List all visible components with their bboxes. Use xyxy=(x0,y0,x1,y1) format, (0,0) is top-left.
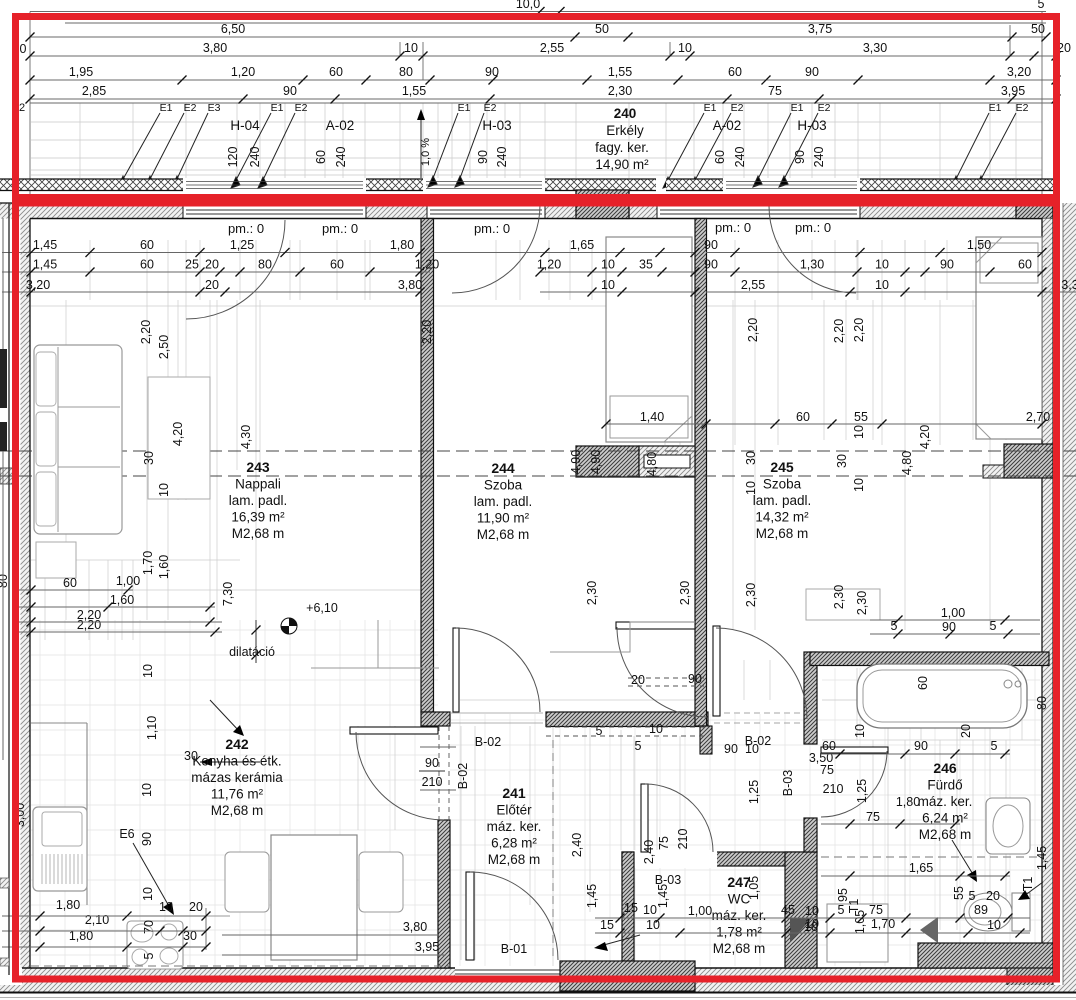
shaft block between rooms xyxy=(576,446,639,477)
svg-text:1,70: 1,70 xyxy=(141,551,155,575)
svg-text:E6: E6 xyxy=(119,827,134,841)
kitchen door opening dashed jambs xyxy=(438,726,440,820)
svg-text:3,80: 3,80 xyxy=(398,278,422,292)
duct wall piece with slot xyxy=(639,446,695,477)
svg-text:lam. padl.: lam. padl. xyxy=(474,494,533,509)
svg-text:241: 241 xyxy=(502,785,526,801)
svg-text:210: 210 xyxy=(676,829,690,850)
kitchen counter left xyxy=(86,723,88,905)
hall dashed vertical xyxy=(552,740,554,960)
sofa living room xyxy=(34,345,122,534)
svg-text:89: 89 xyxy=(974,903,988,917)
right wall pier light xyxy=(983,465,1004,478)
svg-text:E2: E2 xyxy=(731,102,744,114)
svg-text:1,50: 1,50 xyxy=(967,238,991,252)
section line lower xyxy=(0,475,1076,477)
svg-text:50: 50 xyxy=(1031,22,1045,36)
T1 arrow kitchen xyxy=(210,700,240,732)
svg-text:3,95: 3,95 xyxy=(1001,84,1025,98)
fraction line 90 210 kitchen door xyxy=(419,770,445,772)
svg-text:M2,68 m: M2,68 m xyxy=(211,803,264,818)
bath left wall upper xyxy=(804,652,817,744)
washbasin bath xyxy=(986,798,1030,854)
svg-text:M2,68 m: M2,68 m xyxy=(488,852,541,867)
svg-text:1,80: 1,80 xyxy=(390,238,414,252)
svg-text:55: 55 xyxy=(952,886,966,900)
kitchen dimension lines xyxy=(12,589,133,591)
svg-text:H-03: H-03 xyxy=(482,118,511,133)
svg-text:A-02: A-02 xyxy=(713,118,742,133)
svg-text:245: 245 xyxy=(770,459,794,475)
svg-text:B-01: B-01 xyxy=(501,942,527,956)
svg-text:1,20: 1,20 xyxy=(231,65,255,79)
svg-text:1,20: 1,20 xyxy=(537,258,561,272)
svg-text:5: 5 xyxy=(969,889,976,903)
svg-text:30: 30 xyxy=(835,454,849,468)
svg-text:10: 10 xyxy=(649,722,663,736)
svg-text:80: 80 xyxy=(258,258,272,272)
svg-text:M2,68 m: M2,68 m xyxy=(477,527,530,542)
wc bath thick wall xyxy=(785,852,817,968)
hall dashed ceiling line xyxy=(546,726,708,728)
wall hall head piece xyxy=(546,712,708,727)
left exterior wall xyxy=(21,203,31,968)
svg-text:1,45: 1,45 xyxy=(1035,846,1049,870)
window leader arrows E1 E2 E3 xyxy=(118,113,1016,188)
door 245 threshold dashed xyxy=(714,712,804,714)
svg-text:2,30: 2,30 xyxy=(832,585,846,609)
svg-text:6,50: 6,50 xyxy=(221,22,245,36)
svg-text:75: 75 xyxy=(866,810,880,824)
svg-text:60: 60 xyxy=(329,65,343,79)
top dimension lines xyxy=(30,12,1056,204)
svg-text:1,60: 1,60 xyxy=(157,555,171,579)
svg-text:90: 90 xyxy=(704,258,718,272)
bath left wall lower piece xyxy=(804,818,817,852)
bottom right ledge wall xyxy=(918,943,1053,968)
svg-text:15: 15 xyxy=(624,901,638,915)
E6 arrow xyxy=(133,843,170,908)
svg-text:dilatáció: dilatáció xyxy=(229,645,275,659)
svg-text:55: 55 xyxy=(854,410,868,424)
svg-text:80: 80 xyxy=(1035,696,1049,710)
svg-text:10: 10 xyxy=(875,258,889,272)
svg-text:5: 5 xyxy=(991,739,998,753)
svg-text:10,0: 10,0 xyxy=(516,0,540,11)
dilatacio joint line xyxy=(255,620,257,663)
svg-text:246: 246 xyxy=(933,760,957,776)
left wall outer edge xyxy=(8,203,10,975)
svg-text:6,28 m²: 6,28 m² xyxy=(491,836,537,851)
svg-text:1,80: 1,80 xyxy=(896,795,920,809)
svg-text:10: 10 xyxy=(853,724,867,738)
svg-text:20: 20 xyxy=(205,278,219,292)
svg-text:90: 90 xyxy=(805,65,819,79)
svg-text:3,20: 3,20 xyxy=(1007,65,1031,79)
svg-text:Előtér: Előtér xyxy=(496,803,532,818)
dark wedge symbol xyxy=(790,918,812,942)
svg-text:5: 5 xyxy=(838,903,845,917)
svg-text:1,10: 1,10 xyxy=(145,716,159,740)
svg-text:4,90: 4,90 xyxy=(589,450,603,474)
svg-text:B-02: B-02 xyxy=(456,763,470,789)
svg-text:70: 70 xyxy=(142,920,156,934)
svg-text:15: 15 xyxy=(600,918,614,932)
projection lines rooms xyxy=(31,240,1042,968)
balcony door arc room 244 xyxy=(452,205,540,293)
svg-text:60: 60 xyxy=(728,65,742,79)
closet outline room 244 xyxy=(550,622,695,652)
svg-text:máz. ker.: máz. ker. xyxy=(918,794,973,809)
hall dimension lines xyxy=(222,934,438,936)
svg-text:75: 75 xyxy=(820,763,834,777)
svg-text:5: 5 xyxy=(635,739,642,753)
svg-text:M2,68 m: M2,68 m xyxy=(919,827,972,842)
svg-text:3,95: 3,95 xyxy=(415,940,439,954)
svg-text:210: 210 xyxy=(823,782,844,796)
svg-text:1,25: 1,25 xyxy=(747,780,761,804)
svg-text:90: 90 xyxy=(942,620,956,634)
svg-text:1,60: 1,60 xyxy=(110,593,134,607)
svg-text:90: 90 xyxy=(425,756,439,770)
svg-text:244: 244 xyxy=(491,460,515,476)
svg-text:240: 240 xyxy=(495,147,509,168)
wc door leaf and arc xyxy=(641,784,648,852)
svg-text:máz. ker.: máz. ker. xyxy=(712,908,767,923)
svg-text:lam. padl.: lam. padl. xyxy=(753,493,812,508)
bed room 245 xyxy=(976,237,1042,439)
svg-text:20: 20 xyxy=(959,724,973,738)
svg-text:2,30: 2,30 xyxy=(678,581,692,605)
projection lines balcony xyxy=(31,103,1042,178)
toilet arrow bath xyxy=(1024,882,1043,896)
svg-text:80: 80 xyxy=(399,65,413,79)
svg-text:1,95: 1,95 xyxy=(69,65,93,79)
svg-text:2,20: 2,20 xyxy=(852,318,866,342)
svg-text:210: 210 xyxy=(422,775,443,789)
bath door leaf and arc xyxy=(821,747,888,753)
left wall slab stub xyxy=(0,468,15,484)
svg-text:pm.: 0: pm.: 0 xyxy=(474,221,510,236)
svg-text:Konyha és étk.: Konyha és étk. xyxy=(192,754,281,769)
svg-text:E2: E2 xyxy=(818,102,831,114)
svg-text:1,00: 1,00 xyxy=(688,904,712,918)
svg-text:H-04: H-04 xyxy=(230,118,260,133)
svg-text:2,85: 2,85 xyxy=(82,84,106,98)
bottom right dark corner piece xyxy=(1007,962,1053,990)
svg-text:mázas kerámia: mázas kerámia xyxy=(191,770,283,785)
svg-text:4,20: 4,20 xyxy=(171,422,185,446)
svg-text:10: 10 xyxy=(601,278,615,292)
svg-text:35: 35 xyxy=(639,258,653,272)
bathtub xyxy=(857,664,1027,728)
red frame apartment xyxy=(16,203,1057,979)
svg-text:10: 10 xyxy=(157,483,171,497)
svg-text:E1: E1 xyxy=(989,102,1002,114)
svg-text:1,25: 1,25 xyxy=(230,238,254,252)
dimension row mid xyxy=(606,423,706,425)
kitchen arrow 30 xyxy=(200,761,260,763)
svg-text:90: 90 xyxy=(485,65,499,79)
svg-text:10: 10 xyxy=(140,783,154,797)
svg-text:máz. ker.: máz. ker. xyxy=(487,819,542,834)
top dimension ticks xyxy=(26,33,35,42)
svg-text:2,55: 2,55 xyxy=(540,41,564,55)
svg-text:0: 0 xyxy=(20,42,27,56)
svg-text:1,00: 1,00 xyxy=(941,606,965,620)
dining table xyxy=(271,835,357,960)
svg-text:10: 10 xyxy=(987,918,1001,932)
svg-text:T1: T1 xyxy=(1021,877,1035,892)
svg-text:2: 2 xyxy=(19,102,25,114)
svg-text:4,80: 4,80 xyxy=(645,452,659,476)
svg-text:45: 45 xyxy=(781,903,795,917)
svg-text:2,20: 2,20 xyxy=(77,618,101,632)
toilet bath xyxy=(1012,893,1030,931)
svg-text:E1: E1 xyxy=(160,102,173,114)
door 243 threshold lines xyxy=(450,712,543,714)
svg-text:1,45: 1,45 xyxy=(33,258,57,272)
svg-text:10: 10 xyxy=(805,917,819,931)
svg-text:3,80: 3,80 xyxy=(203,41,227,55)
svg-text:H-03: H-03 xyxy=(797,118,826,133)
svg-text:60: 60 xyxy=(140,238,154,252)
svg-text:pm.: 0: pm.: 0 xyxy=(795,220,831,235)
svg-text:1,25: 1,25 xyxy=(855,779,869,803)
entry door B-01 opening xyxy=(455,966,560,978)
svg-text:60: 60 xyxy=(796,410,810,424)
red frame balcony strip xyxy=(16,17,1057,198)
svg-text:2,40: 2,40 xyxy=(570,833,584,857)
bottom exterior wall xyxy=(22,968,1053,985)
svg-text:4,30: 4,30 xyxy=(239,425,253,449)
nightstand room 245 xyxy=(806,589,880,620)
svg-text:M2,68 m: M2,68 m xyxy=(232,526,285,541)
svg-text:Szoba: Szoba xyxy=(763,477,802,492)
left outside wall bars xyxy=(0,349,7,408)
svg-text:2,20: 2,20 xyxy=(746,318,760,342)
svg-text:240: 240 xyxy=(614,106,637,121)
wall stub below hall head xyxy=(700,726,712,754)
svg-text:pm.: 0: pm.: 0 xyxy=(322,221,358,236)
svg-text:10: 10 xyxy=(643,903,657,917)
room 245 door leaf and arc xyxy=(713,626,720,716)
svg-text:2,30: 2,30 xyxy=(855,591,869,615)
right wall pier dark xyxy=(1004,444,1053,478)
svg-text:240: 240 xyxy=(248,147,262,168)
svg-text:1,45: 1,45 xyxy=(33,238,57,252)
right neighbour wall band xyxy=(1063,203,1076,992)
wall between living 243 and room 244 xyxy=(421,219,434,713)
svg-text:1,65: 1,65 xyxy=(570,238,594,252)
svg-text:M2,68 m: M2,68 m xyxy=(756,526,809,541)
svg-text:50: 50 xyxy=(595,22,609,36)
svg-text:11,76 m²: 11,76 m² xyxy=(211,787,264,802)
svg-text:3,80: 3,80 xyxy=(403,920,427,934)
svg-text:1,20: 1,20 xyxy=(415,258,439,272)
svg-text:pm.: 0: pm.: 0 xyxy=(715,220,751,235)
svg-text:1,78 m²: 1,78 m² xyxy=(716,925,762,940)
svg-text:10: 10 xyxy=(852,425,866,439)
svg-text:10: 10 xyxy=(852,478,866,492)
svg-text:+6,10: +6,10 xyxy=(306,601,338,615)
svg-text:2,20: 2,20 xyxy=(139,320,153,344)
svg-text:E1: E1 xyxy=(271,102,284,114)
svg-text:A-02: A-02 xyxy=(326,118,355,133)
svg-text:240: 240 xyxy=(334,147,348,168)
dimension rows rooms top xyxy=(2,252,420,254)
svg-text:20: 20 xyxy=(986,889,1000,903)
svg-text:1,55: 1,55 xyxy=(608,65,632,79)
kitchen appliance E6 xyxy=(33,807,87,891)
svg-text:60: 60 xyxy=(314,150,328,164)
svg-text:243: 243 xyxy=(246,459,270,475)
svg-text:240: 240 xyxy=(812,147,826,168)
svg-text:10: 10 xyxy=(678,41,692,55)
bath dashed line xyxy=(821,856,1040,858)
svg-text:10: 10 xyxy=(141,887,155,901)
wall corner at hall door xyxy=(421,712,450,726)
svg-text:90: 90 xyxy=(688,672,702,686)
svg-text:Szoba: Szoba xyxy=(484,478,523,493)
svg-text:75: 75 xyxy=(768,84,782,98)
svg-text:B-03: B-03 xyxy=(781,770,795,796)
basin arrow bath xyxy=(952,840,974,876)
wc top wall xyxy=(622,852,804,866)
svg-text:20: 20 xyxy=(205,258,219,272)
svg-text:Nappali: Nappali xyxy=(235,477,281,492)
svg-text:90: 90 xyxy=(140,832,154,846)
dresser living xyxy=(148,377,210,499)
svg-text:E2: E2 xyxy=(484,102,497,114)
svg-text:E2: E2 xyxy=(184,102,197,114)
svg-text:M2,68 m: M2,68 m xyxy=(713,941,766,956)
svg-text:E1: E1 xyxy=(791,102,804,114)
svg-text:60: 60 xyxy=(63,576,77,590)
svg-text:90: 90 xyxy=(940,258,954,272)
svg-text:Erkély: Erkély xyxy=(606,123,644,138)
svg-text:E1: E1 xyxy=(704,102,717,114)
svg-text:240: 240 xyxy=(733,147,747,168)
svg-text:5: 5 xyxy=(142,952,156,959)
svg-text:E2: E2 xyxy=(295,102,308,114)
svg-text:10: 10 xyxy=(159,900,173,914)
bottom band below red line xyxy=(0,985,1076,992)
svg-text:lam. padl.: lam. padl. xyxy=(229,493,288,508)
svg-text:4,20: 4,20 xyxy=(918,425,932,449)
svg-text:75: 75 xyxy=(657,836,671,850)
svg-text:11,90 m²: 11,90 m² xyxy=(477,511,530,526)
bottom wall dark pier below wc xyxy=(560,961,695,991)
svg-text:2,30: 2,30 xyxy=(585,581,599,605)
tile grid kitchen room 242 xyxy=(31,620,438,966)
wc left wall xyxy=(622,852,634,961)
svg-text:90: 90 xyxy=(793,150,807,164)
bath dimension lines xyxy=(870,619,1040,621)
svg-text:25: 25 xyxy=(185,258,199,272)
svg-text:10: 10 xyxy=(601,258,615,272)
top wall window sills xyxy=(186,205,363,207)
svg-text:1,45: 1,45 xyxy=(656,884,670,908)
svg-text:90: 90 xyxy=(283,84,297,98)
svg-text:1,00: 1,00 xyxy=(116,574,140,588)
svg-text:2,50: 2,50 xyxy=(157,335,171,359)
svg-text:60: 60 xyxy=(916,676,930,690)
svg-text:60: 60 xyxy=(140,258,154,272)
svg-text:2,30: 2,30 xyxy=(608,84,632,98)
svg-text:1,45: 1,45 xyxy=(585,884,599,908)
svg-text:3,3: 3,3 xyxy=(1061,278,1076,292)
svg-text:1,0 %: 1,0 % xyxy=(420,138,432,166)
svg-text:30: 30 xyxy=(142,451,156,465)
svg-text:2,20: 2,20 xyxy=(832,319,846,343)
balcony parapet crosshatch xyxy=(0,179,183,191)
svg-text:120: 120 xyxy=(226,147,240,168)
svg-text:7,30: 7,30 xyxy=(221,582,235,606)
svg-text:75: 75 xyxy=(869,903,883,917)
svg-text:10: 10 xyxy=(404,41,418,55)
side table living xyxy=(36,542,76,578)
svg-text:B-02: B-02 xyxy=(475,735,501,749)
svg-text:E2: E2 xyxy=(1016,102,1029,114)
hall door 243 leaf and arc xyxy=(453,628,459,712)
svg-text:B-03: B-03 xyxy=(655,873,681,887)
left outside hatch blocks xyxy=(0,878,9,888)
wall between rooms 244 and 245 xyxy=(695,219,707,727)
wall kitchen-hall with door xyxy=(438,820,450,968)
svg-text:3,75: 3,75 xyxy=(808,22,832,36)
svg-text:fagy. ker.: fagy. ker. xyxy=(595,140,649,155)
svg-text:1,80: 1,80 xyxy=(56,898,80,912)
svg-text:Fürdő: Fürdő xyxy=(927,778,962,793)
svg-text:1,65: 1,65 xyxy=(909,861,933,875)
room 244 door head dashed xyxy=(628,677,704,679)
svg-text:242: 242 xyxy=(225,736,249,752)
svg-text:60: 60 xyxy=(1018,258,1032,272)
kitchen dashed floor line xyxy=(31,965,450,967)
svg-text:3,20: 3,20 xyxy=(26,278,50,292)
svg-text:90: 90 xyxy=(704,238,718,252)
svg-text:90: 90 xyxy=(476,150,490,164)
balcony door arc living 243 xyxy=(186,220,285,319)
svg-text:1,40: 1,40 xyxy=(640,410,664,424)
svg-text:30: 30 xyxy=(744,451,758,465)
svg-text:pm.: 0: pm.: 0 xyxy=(228,221,264,236)
svg-text:1,55: 1,55 xyxy=(402,84,426,98)
svg-text:5: 5 xyxy=(596,724,603,738)
dining chairs xyxy=(225,852,269,912)
svg-text:5: 5 xyxy=(990,619,997,633)
svg-text:3,30: 3,30 xyxy=(863,41,887,55)
svg-text:14,90 m²: 14,90 m² xyxy=(595,157,649,172)
slope arrow 1,0% xyxy=(420,118,422,178)
tile grid hall bath wc xyxy=(450,668,1042,966)
kitchen stove xyxy=(127,921,183,969)
svg-text:1,30: 1,30 xyxy=(800,258,824,272)
svg-text:4,80: 4,80 xyxy=(900,451,914,475)
svg-text:2,40: 2,40 xyxy=(642,840,656,864)
svg-text:60: 60 xyxy=(822,739,836,753)
svg-text:60: 60 xyxy=(713,150,727,164)
svg-text:60: 60 xyxy=(330,258,344,272)
room 244 door leaf and arc xyxy=(616,622,695,629)
washing machine bath xyxy=(827,904,888,962)
balcony window glazing lines xyxy=(186,181,363,183)
bath top wall xyxy=(810,652,1049,666)
svg-text:2,10: 2,10 xyxy=(85,913,109,927)
svg-text:2,70: 2,70 xyxy=(1026,410,1050,424)
top wall pier dark xyxy=(576,190,629,219)
